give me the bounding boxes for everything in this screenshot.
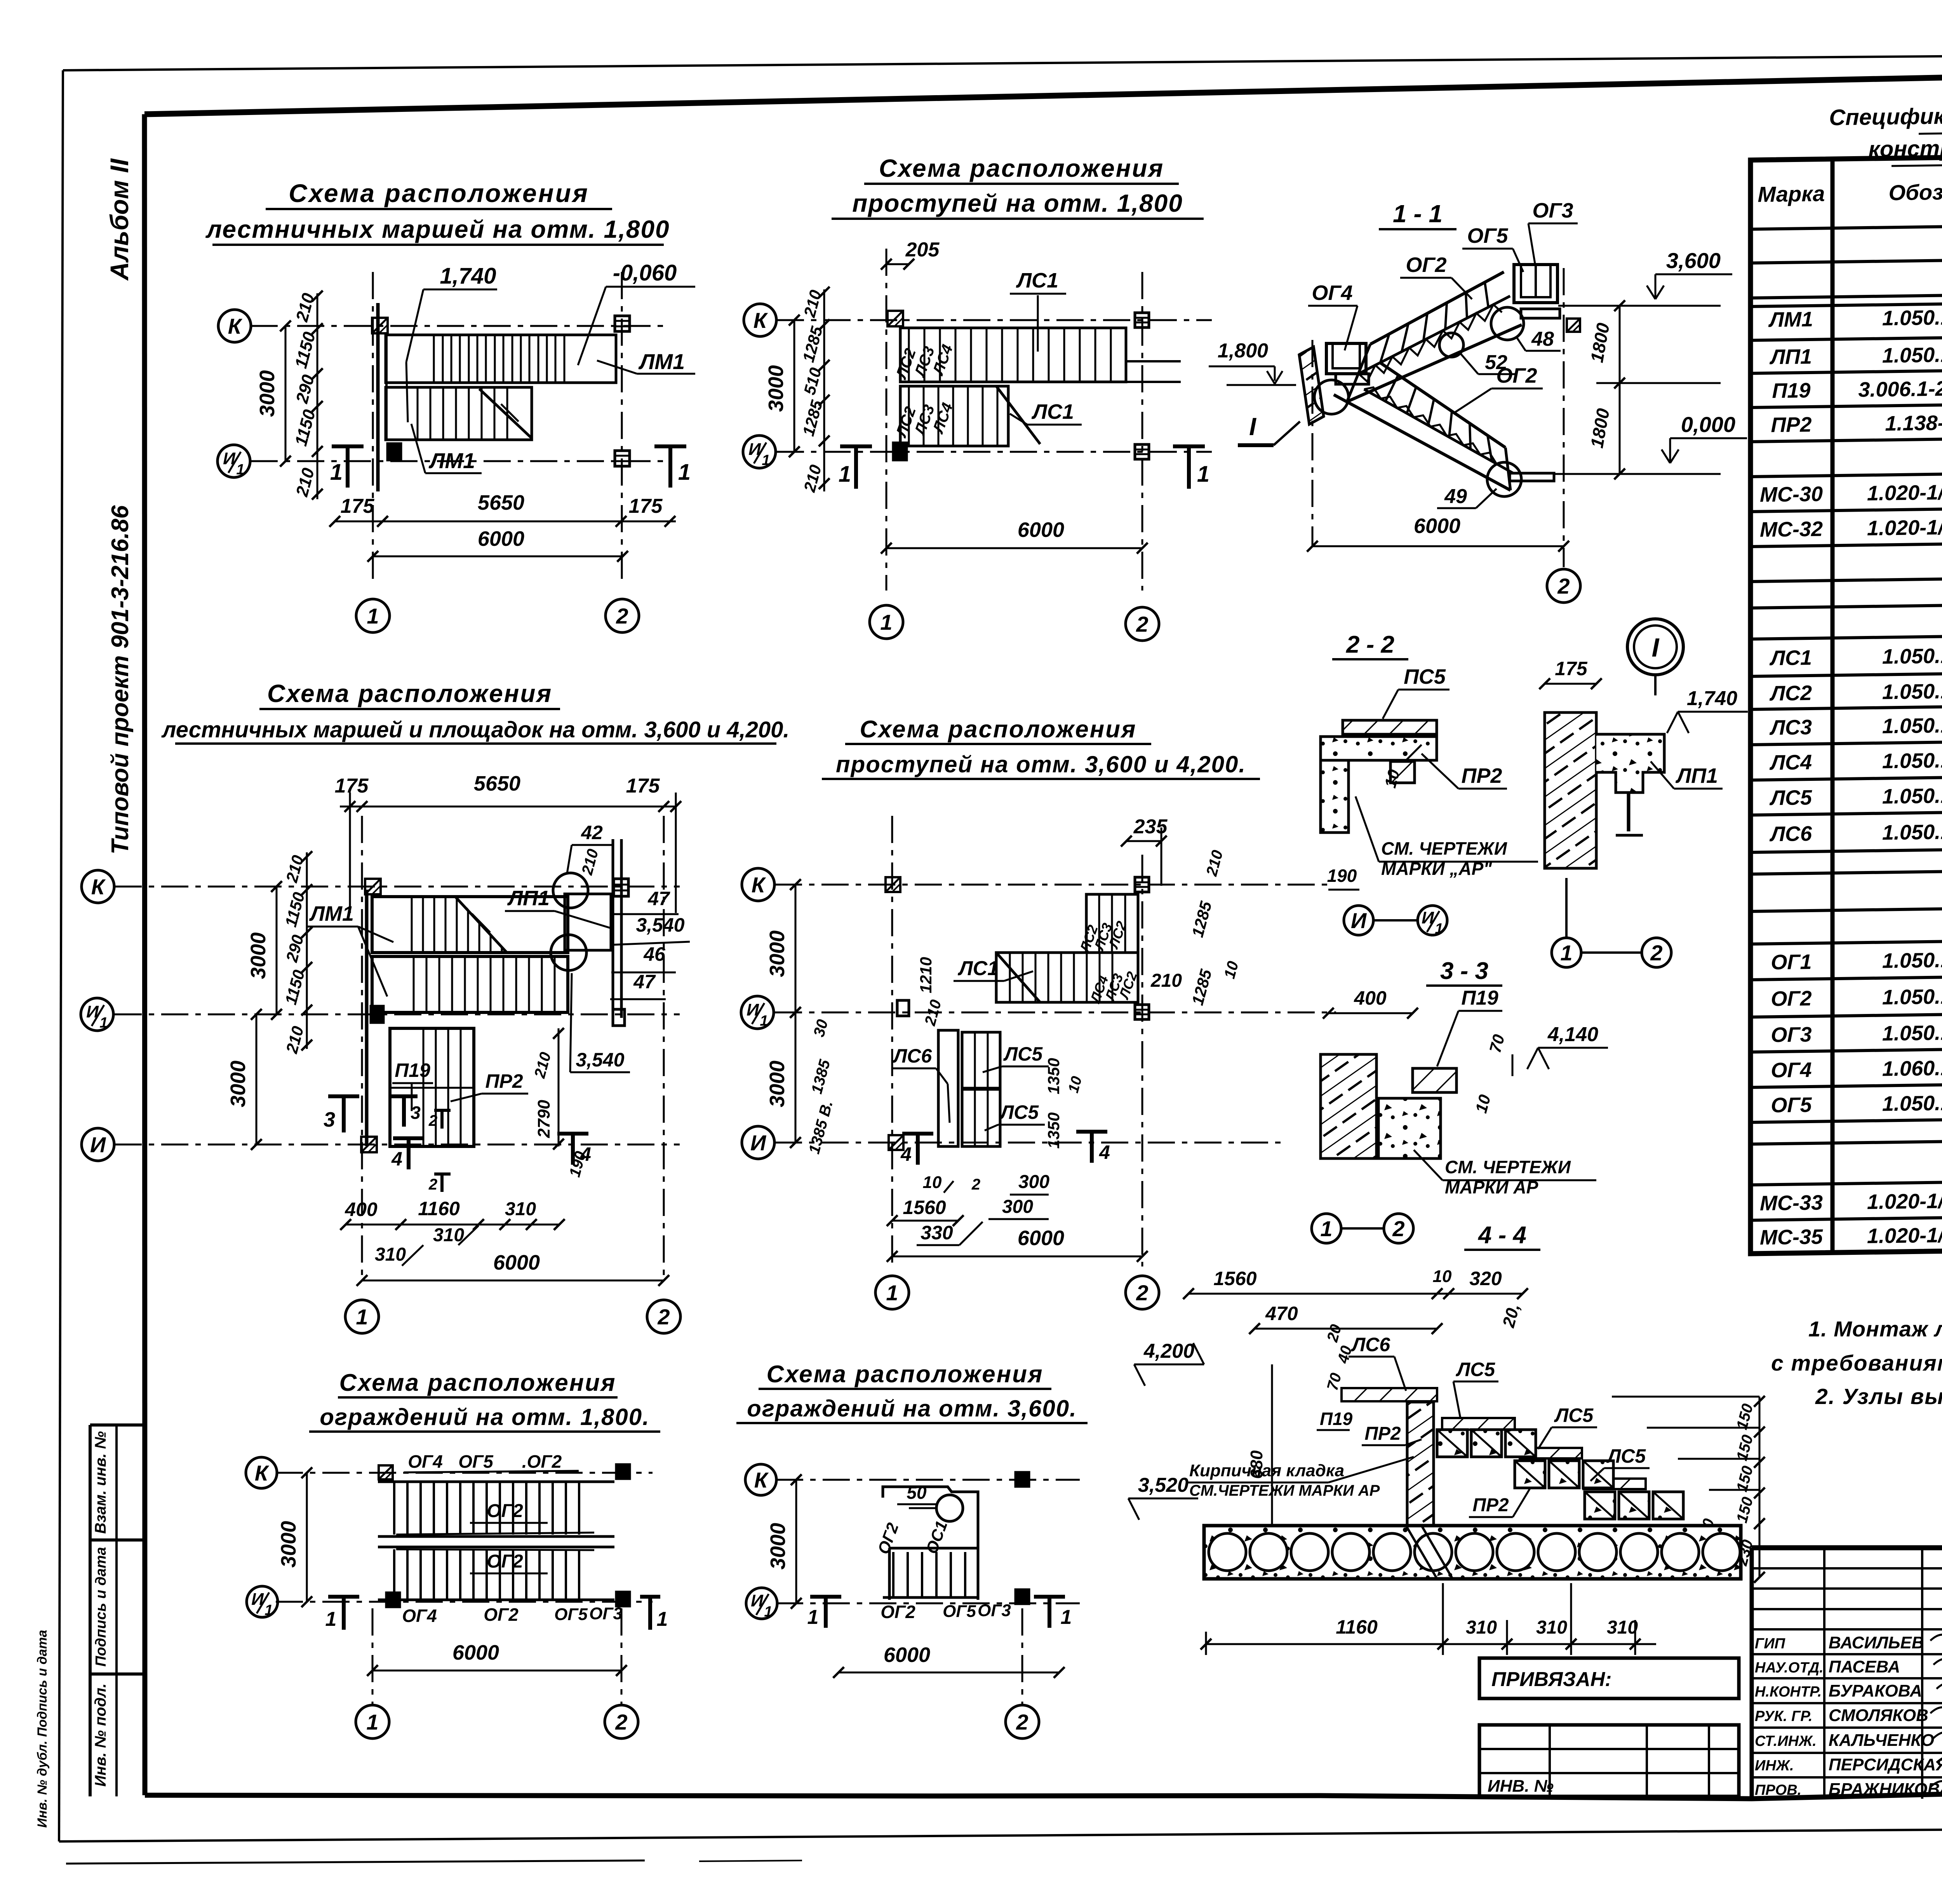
svg-text:с требованиями серии 1.020-: с требованиями серии 1.020-1/83 вып. 0-1… <box>1771 1351 1942 1376</box>
svg-text:Схема расположения: Схема расположения <box>289 179 589 207</box>
svg-text:2: 2 <box>428 1112 437 1129</box>
svg-text:И: И <box>750 1131 767 1155</box>
scheme C landing slab plan between circles <box>565 894 611 950</box>
section 1-1 lower flight guard band <box>1380 363 1505 448</box>
section 1-1 lower flight steps zigzag <box>1364 387 1506 464</box>
svg-text:ограждений на отм. 1,800.: ограждений на отм. 1,800. <box>320 1404 650 1430</box>
scheme C big circles landing supports <box>553 873 588 908</box>
title block signatures squiggles <box>1930 1634 1942 1642</box>
svg-text:МС-30: МС-30 <box>1760 483 1823 507</box>
svg-text:ПС5: ПС5 <box>1404 665 1446 688</box>
scheme F section marks 1 1 <box>810 1595 841 1599</box>
scheme F vertical dim 3000 <box>795 1480 797 1603</box>
scheme E axis circles 1 2 <box>372 1608 374 1705</box>
svg-text:175: 175 <box>341 495 375 517</box>
svg-text:1: 1 <box>356 1305 368 1329</box>
svg-text:1: 1 <box>325 1608 337 1631</box>
svg-text:проступей на отм. 1,800: проступей на отм. 1,800 <box>852 189 1183 217</box>
svg-text:1.138-10 вып.1: 1.138-10 вып.1 <box>1885 410 1942 435</box>
scheme D mid flight treads with diagonal <box>996 953 1138 1002</box>
svg-text:К: К <box>752 873 766 897</box>
svg-text:ЛС5: ЛС5 <box>1003 1043 1043 1065</box>
svg-text:ЛС4: ЛС4 <box>1769 751 1812 774</box>
detail 3-3 dim 400 <box>1328 1012 1413 1014</box>
svg-text:205: 205 <box>905 239 940 261</box>
svg-text:4,200: 4,200 <box>1143 1340 1194 1362</box>
left margin stamp boxes <box>90 1423 145 1427</box>
svg-text:235: 235 <box>1133 815 1168 838</box>
svg-text:10: 10 <box>923 1173 942 1192</box>
scheme A section mark 1 left <box>332 444 364 448</box>
svg-text:ЛС5: ЛС5 <box>1606 1445 1646 1467</box>
scheme D column I/1 small <box>897 1000 909 1016</box>
svg-text:Схема расположения: Схема расположения <box>766 1361 1043 1388</box>
scheme D axis 2 vertical <box>1142 855 1143 1266</box>
svg-text:4: 4 <box>1099 1141 1110 1163</box>
scheme B column K-2 <box>1135 313 1149 327</box>
svg-text:ОГ4: ОГ4 <box>408 1451 443 1472</box>
scheme C column I/1-1 black <box>371 1006 383 1023</box>
svg-text:1: 1 <box>1320 1216 1332 1241</box>
svg-text:190: 190 <box>1327 866 1357 886</box>
svg-text:ПР2: ПР2 <box>1472 1495 1509 1516</box>
svg-text:ЛС6: ЛС6 <box>1769 822 1812 846</box>
svg-text:1.020-1/83 вып.6-1: 1.020-1/83 вып.6-1 <box>1867 1188 1942 1214</box>
svg-text:1.050.1-2 вып.2: 1.050.1-2 вып.2 <box>1882 947 1942 972</box>
svg-text:1: 1 <box>1435 921 1443 937</box>
svg-text:П19: П19 <box>1461 987 1498 1009</box>
svg-text:1.050.1-2 вып.2: 1.050.1-2 вып.2 <box>1882 1090 1942 1115</box>
svg-text:1.050.1-2 вып.1: 1.050.1-2 вып.1 <box>1882 747 1942 773</box>
scheme E section marks 1 1 <box>328 1595 359 1599</box>
scheme B upper tread row <box>900 328 1126 382</box>
scheme C dim 6000 <box>362 1280 664 1282</box>
svg-text:ОГ2: ОГ2 <box>881 1602 915 1622</box>
svg-text:ОГ2: ОГ2 <box>1406 253 1446 277</box>
svg-text:210: 210 <box>1150 970 1182 991</box>
detail 3-3 slab piece hatched <box>1413 1068 1456 1092</box>
svg-text:3000: 3000 <box>256 370 279 417</box>
section 1-1 axis 2 dash-dot vertical <box>1563 268 1565 567</box>
svg-text:ОГ4: ОГ4 <box>1771 1058 1811 1082</box>
svg-text:1560: 1560 <box>903 1197 946 1218</box>
svg-text:1350: 1350 <box>1044 1058 1063 1094</box>
svg-text:47: 47 <box>647 888 670 909</box>
svg-text:К: К <box>753 308 768 333</box>
section 1-1 upper flight steps zigzag <box>1359 305 1502 381</box>
scheme C axis I/1 line and circle <box>115 1014 680 1016</box>
svg-text:175: 175 <box>629 495 663 517</box>
section 1-1 hatched column top right <box>1567 319 1580 332</box>
section 1-1 left axis dash-dot vertical <box>1312 340 1314 546</box>
section 4-4 bottom dims 1160 310 310 310 <box>1206 1643 1656 1645</box>
svg-text:1 - 1: 1 - 1 <box>1393 200 1443 228</box>
svg-text:Н.КОНТР.: Н.КОНТР. <box>1755 1684 1822 1700</box>
scheme C axis I line and circle <box>115 1144 680 1146</box>
svg-text:4: 4 <box>900 1143 912 1165</box>
section 4-4 step blocks row 2 <box>1515 1461 1545 1488</box>
scheme C tiny section 2 marks <box>434 1109 451 1112</box>
svg-text:3: 3 <box>411 1103 421 1123</box>
svg-text:ОГ3: ОГ3 <box>1532 199 1573 222</box>
svg-text:лестничных маршей и площадок: лестничных маршей и площадок на отм. 3,6… <box>161 717 789 742</box>
scheme A column at K-2 <box>615 316 630 331</box>
svg-text:50: 50 <box>907 1482 927 1503</box>
svg-text:СМОЛЯКОВ: СМОЛЯКОВ <box>1829 1706 1928 1725</box>
svg-text:6000: 6000 <box>1018 1226 1064 1250</box>
svg-text:310: 310 <box>1536 1617 1567 1638</box>
svg-text:Взам. инв. №: Взам. инв. № <box>92 1431 109 1534</box>
scheme D column K-2 <box>1135 877 1149 892</box>
scheme A vertical dim 3000 <box>285 326 287 461</box>
svg-text:проступей на отм. 3,600 и 4,: проступей на отм. 3,600 и 4,200. <box>836 751 1246 777</box>
svg-text:1160: 1160 <box>418 1198 460 1219</box>
scheme E column marks <box>379 1465 393 1479</box>
scheme E lower guard rail row <box>378 1546 614 1549</box>
svg-text:СМ.ЧЕРТЕЖИ МАРКИ АР: СМ.ЧЕРТЕЖИ МАРКИ АР <box>1189 1482 1380 1499</box>
section 4-4 hollow core slab <box>1204 1526 1741 1579</box>
scheme C axis circles 1 2 <box>345 1300 379 1333</box>
scheme D axis I line and circle <box>775 1142 1282 1144</box>
svg-text:К: К <box>91 874 106 899</box>
scheme B column I/1-2 <box>1135 444 1149 459</box>
svg-text:ЛП1: ЛП1 <box>507 887 550 910</box>
node I axis circles 1 2 <box>1552 938 1581 967</box>
scheme C vertical dims 3000 x2 <box>276 887 278 1014</box>
scheme C axis 2 vertical <box>663 816 665 1282</box>
svg-text:БУРАКОВА: БУРАКОВА <box>1829 1681 1922 1700</box>
svg-text:1. Монтаж лестничных маршей: 1. Монтаж лестничных маршей производить … <box>1808 1317 1942 1341</box>
svg-text:НАУ.ОТД.: НАУ.ОТД. <box>1755 1660 1824 1676</box>
scheme A column at K-1 hatched <box>372 318 388 333</box>
svg-text:2: 2 <box>657 1305 670 1329</box>
svg-text:47: 47 <box>633 971 656 993</box>
scheme A axis circle 1 <box>356 599 390 632</box>
svg-text:П19: П19 <box>395 1059 430 1081</box>
svg-text:1.020-1/83 вып.7-1: 1.020-1/83 вып.7-1 <box>1867 479 1942 505</box>
scan page edge line bottom <box>66 1860 645 1864</box>
svg-text:ГИП: ГИП <box>1755 1636 1785 1652</box>
svg-text:1.060.1-2 вып.2: 1.060.1-2 вып.2 <box>1882 1055 1942 1080</box>
svg-text:1560: 1560 <box>1213 1268 1256 1289</box>
detail 2-2 wall below <box>1321 760 1349 833</box>
svg-text:Подпись и дата: Подпись и дата <box>93 1547 109 1667</box>
scheme B column K-1 hatched <box>887 311 903 326</box>
svg-text:49: 49 <box>1444 485 1467 508</box>
svg-text:РУК. ГР.: РУК. ГР. <box>1755 1708 1813 1725</box>
svg-text:ЛС1: ЛС1 <box>1031 400 1074 423</box>
scheme B lower tread row with diagonal <box>900 386 1008 446</box>
scheme F dim 6000 <box>839 1672 1059 1674</box>
scheme C axis K line and circle <box>115 886 680 888</box>
svg-text:3000: 3000 <box>226 1061 250 1107</box>
svg-text:310: 310 <box>505 1199 536 1219</box>
privyazan box <box>1479 1658 1739 1698</box>
svg-text:2: 2 <box>971 1176 980 1193</box>
svg-text:1160: 1160 <box>1336 1616 1378 1638</box>
svg-text:К: К <box>228 314 243 338</box>
section 1-1 vertical dims 1800 1800 <box>1619 306 1621 474</box>
svg-text:ПАСЕВА: ПАСЕВА <box>1829 1657 1900 1676</box>
scheme C axis 1 vertical <box>361 816 363 1282</box>
svg-text:МС-33: МС-33 <box>1760 1191 1823 1215</box>
svg-text:ПРОВ.: ПРОВ. <box>1755 1782 1801 1798</box>
svg-text:1: 1 <box>880 610 892 634</box>
svg-text:1.020-1/83 вып.6-1: 1.020-1/83 вып.6-1 <box>1867 1222 1942 1248</box>
scheme C column box I/1-2 <box>613 1009 625 1026</box>
svg-text:ОГ3: ОГ3 <box>978 1601 1011 1620</box>
detail 2-2 axis circles I I/1 <box>1344 906 1373 935</box>
svg-text:310: 310 <box>433 1225 464 1246</box>
scheme F axis I/1 line circle <box>776 1603 1080 1604</box>
svg-text:СМ. ЧЕРТЕЖИ: СМ. ЧЕРТЕЖИ <box>1445 1157 1571 1177</box>
detail 3-3 axis circles 1 2 <box>1312 1214 1341 1243</box>
svg-text:1.050.1-2 вып.1: 1.050.1-2 вып.1 <box>1882 678 1942 704</box>
main drawing frame <box>144 65 1942 114</box>
section 4-4 top dims 1560 10 320 470 20 <box>1189 1293 1523 1295</box>
scheme B section mark 1 left <box>840 444 872 448</box>
section 1-1 dim 6000 <box>1312 545 1564 547</box>
svg-text:ЛП1: ЛП1 <box>1675 764 1718 787</box>
scheme D axis 1 vertical <box>891 816 893 1266</box>
svg-text:ЛМ1: ЛМ1 <box>1768 308 1813 332</box>
svg-text:К: К <box>754 1468 769 1492</box>
svg-text:ограждений на отм. 3,600.: ограждений на отм. 3,600. <box>747 1395 1077 1421</box>
svg-text:1.050.1-2 вып.1: 1.050.1-2 вып.1 <box>1882 643 1942 668</box>
svg-text:ИНВ. №: ИНВ. № <box>1488 1777 1554 1796</box>
svg-text:КАЛЬЧЕНКО: КАЛЬЧЕНКО <box>1829 1731 1934 1750</box>
svg-text:1: 1 <box>330 460 343 485</box>
scheme D column K-1 hatched <box>886 877 900 892</box>
section 1-1 top landing guard OG3 panel <box>1514 265 1557 303</box>
svg-text:3000: 3000 <box>766 1523 790 1570</box>
svg-text:БРАЖНИКОВА: БРАЖНИКОВА <box>1829 1780 1942 1799</box>
svg-text:6000: 6000 <box>1414 514 1460 538</box>
svg-text:46: 46 <box>643 943 666 965</box>
scheme C column box K-2 <box>614 879 628 896</box>
svg-text:1.050.1-2 вып.1: 1.050.1-2 вып.1 <box>1882 342 1942 367</box>
svg-text:42: 42 <box>581 822 603 843</box>
svg-text:ПР2: ПР2 <box>1462 764 1502 787</box>
scheme B dim 205 top <box>886 263 909 265</box>
scheme C bottom dims 400 1160 310 310 310 <box>346 1224 559 1226</box>
node I dim 175 top <box>1545 683 1596 685</box>
scheme B landing step edge right <box>1126 360 1181 362</box>
svg-text:3000: 3000 <box>247 932 270 979</box>
section 1-1 top landing bar <box>1521 309 1560 318</box>
svg-text:3000: 3000 <box>766 1061 789 1107</box>
svg-text:2: 2 <box>616 604 628 628</box>
svg-text:ЛС6: ЛС6 <box>893 1045 932 1067</box>
svg-text:ЛС5: ЛС5 <box>1456 1359 1495 1380</box>
scheme B section mark 1 right <box>1173 444 1205 448</box>
scheme C upper flight with diagonal <box>372 897 568 953</box>
section 4-4 brick wall pier hatched <box>1407 1402 1434 1526</box>
svg-text:ИНЖ.: ИНЖ. <box>1755 1758 1794 1774</box>
scheme A axis K circle <box>218 310 251 342</box>
scheme D upper treads block near axis2 <box>1086 894 1138 953</box>
scheme B axis I/1 line <box>777 451 1212 453</box>
svg-text:ОГ2: ОГ2 <box>1771 987 1811 1010</box>
svg-text:ПРИВЯЗАН:: ПРИВЯЗАН: <box>1491 1668 1612 1691</box>
svg-text:ОГ2: ОГ2 <box>487 1551 523 1572</box>
svg-text:1.050.1-2 вып.2: 1.050.1-2 вып.2 <box>1882 984 1942 1009</box>
node I landing slab with nib <box>1596 734 1664 793</box>
svg-text:МС-35: МС-35 <box>1760 1225 1823 1249</box>
scheme F column marks <box>1016 1472 1029 1486</box>
scheme A axis 2 vertical <box>621 272 623 583</box>
scheme A axis circle 2 <box>606 599 639 632</box>
svg-text:Обозначение: Обозначение <box>1889 179 1942 205</box>
detail 2-2 landing slab concrete <box>1321 737 1437 760</box>
node I steel I-beam under slab <box>1622 791 1637 794</box>
scheme F axis K line circle <box>776 1479 1080 1481</box>
svg-text:П19: П19 <box>1772 379 1811 402</box>
scheme D column I/1-2 <box>1135 1005 1149 1019</box>
scheme F small circle OG1 <box>936 1495 963 1521</box>
svg-text:2: 2 <box>1136 612 1148 636</box>
scheme B axis I/1 circle <box>743 435 776 468</box>
scheme C top dims 175 5650 175 <box>340 806 676 808</box>
scheme B dim 6000 <box>886 547 1142 549</box>
svg-text:320: 320 <box>1469 1268 1502 1289</box>
scheme C column K-1 hatched <box>365 879 381 894</box>
svg-text:ОГ5: ОГ5 <box>943 1602 976 1621</box>
svg-text:3 - 3: 3 - 3 <box>1440 958 1488 984</box>
svg-text:2: 2 <box>1392 1216 1404 1241</box>
scheme B axis circle 1 <box>870 605 903 639</box>
svg-text:К: К <box>255 1461 270 1485</box>
svg-text:ЛС2: ЛС2 <box>1769 681 1812 705</box>
scheme E axis I/1 line circle <box>276 1601 653 1603</box>
svg-text:3,600: 3,600 <box>1666 248 1721 273</box>
svg-text:ЛС1: ЛС1 <box>957 957 999 980</box>
svg-text:1,740: 1,740 <box>1687 687 1737 710</box>
scheme C section marks 3 and 4 <box>328 1094 359 1098</box>
scheme A wall line at axis 1 <box>376 303 380 491</box>
section 1-1 bottom landing bar <box>1510 473 1554 481</box>
svg-text:4: 4 <box>580 1143 591 1165</box>
svg-text:1: 1 <box>236 462 244 478</box>
svg-text:330: 330 <box>921 1222 953 1244</box>
scheme C wall at axis1 <box>365 890 369 1146</box>
svg-text:ЛП1: ЛП1 <box>1769 345 1812 369</box>
svg-text:6000: 6000 <box>1018 518 1064 542</box>
svg-text:4: 4 <box>391 1148 402 1170</box>
section 4-4 step blocks row 1 <box>1437 1430 1467 1457</box>
svg-text:1.050.1-2 вып.1: 1.050.1-2 вып.1 <box>1882 305 1942 330</box>
svg-text:ЛС5: ЛС5 <box>1554 1404 1594 1426</box>
scheme D dim 235 top right <box>1126 840 1161 842</box>
svg-text:3: 3 <box>324 1108 335 1131</box>
scheme B small dims column <box>823 289 825 491</box>
scheme C column I-1 hatched <box>361 1137 377 1152</box>
title block outer <box>1752 1545 1942 1550</box>
scheme A column at I/1-1 <box>388 444 401 460</box>
svg-text:-0,060: -0,060 <box>613 260 677 286</box>
svg-text:ОГ1: ОГ1 <box>1771 950 1811 974</box>
svg-text:400: 400 <box>345 1198 378 1220</box>
svg-text:4 - 4: 4 - 4 <box>1477 1222 1526 1249</box>
svg-text:0,000: 0,000 <box>1681 412 1735 437</box>
svg-text:2 - 2: 2 - 2 <box>1346 631 1394 658</box>
section 4-4 tread strips LS5 LS6 stepped <box>1342 1388 1437 1401</box>
svg-text:ЛМ1: ЛМ1 <box>309 902 354 925</box>
scheme E upper guard rail row <box>378 1481 614 1483</box>
svg-text:ОГ2: ОГ2 <box>484 1604 519 1625</box>
svg-text:4,140: 4,140 <box>1547 1023 1598 1046</box>
svg-text:5650: 5650 <box>474 772 520 795</box>
svg-text:ОГ4: ОГ4 <box>1312 281 1352 305</box>
specification table column lines <box>1831 159 1835 1252</box>
svg-text:1: 1 <box>764 1604 772 1620</box>
scheme A dim 175 5650 175 <box>335 521 676 523</box>
scheme E vertical dim 3000 <box>306 1473 308 1602</box>
svg-text:2: 2 <box>428 1176 437 1193</box>
scheme D axis circles 1 2 <box>875 1276 909 1309</box>
svg-text:10: 10 <box>1433 1267 1452 1286</box>
scheme A axis K line <box>251 325 670 327</box>
svg-text:2: 2 <box>1650 941 1662 965</box>
svg-text:ОГ3: ОГ3 <box>1771 1023 1811 1047</box>
scheme A upper stair flight LM1 <box>386 335 616 383</box>
svg-text:Инв. № подл.: Инв. № подл. <box>92 1683 109 1787</box>
svg-text:6000: 6000 <box>884 1643 930 1667</box>
svg-text:I: I <box>1249 413 1256 441</box>
detail 3-3 concrete block <box>1378 1098 1441 1158</box>
svg-text:.ОГ2: .ОГ2 <box>522 1451 562 1472</box>
svg-text:1: 1 <box>367 604 379 628</box>
scheme C small dims column <box>306 852 308 1049</box>
svg-text:ВАСИЛЬЕВ: ВАСИЛЬЕВ <box>1829 1633 1924 1652</box>
svg-text:1,800: 1,800 <box>1218 340 1268 362</box>
svg-text:ЛС3: ЛС3 <box>1769 716 1812 739</box>
svg-text:И: И <box>90 1132 106 1157</box>
svg-text:310: 310 <box>375 1244 406 1265</box>
scheme A lower stair flight LM1 with diagonal cut <box>386 387 532 440</box>
section 1-1 left landing bar <box>1336 374 1369 384</box>
section 1-1 left lower joint circle <box>1314 380 1349 414</box>
scheme B column I/1-1 <box>893 443 907 460</box>
svg-text:ЛМ1: ЛМ1 <box>638 349 685 374</box>
svg-text:1.050.1-2 вып.1: 1.050.1-2 вып.1 <box>1882 712 1942 738</box>
svg-text:1: 1 <box>99 1015 108 1031</box>
svg-text:ПЕРСИДСКАЯ: ПЕРСИДСКАЯ <box>1829 1755 1942 1774</box>
svg-text:Альбом II: Альбом II <box>105 158 134 281</box>
scheme B axis circle 2 <box>1126 607 1159 641</box>
svg-text:1: 1 <box>366 1710 378 1734</box>
scheme E dim 6000 <box>372 1670 621 1672</box>
svg-text:1: 1 <box>886 1280 898 1305</box>
detail 3-3 wall hatched <box>1321 1054 1376 1158</box>
scheme D column I-1 hatched <box>889 1135 903 1150</box>
svg-text:1: 1 <box>1560 941 1572 965</box>
scheme D vertical dims 3000 x2 <box>795 885 797 1012</box>
svg-text:1210: 1210 <box>917 957 935 993</box>
svg-text:ОГ5: ОГ5 <box>458 1451 494 1472</box>
scheme B axis 2 vertical <box>1142 272 1143 591</box>
svg-text:3,520: 3,520 <box>1138 1474 1189 1496</box>
svg-text:3.006.1-2/82 вып.1-2: 3.006.1-2/82 вып.1-2 <box>1858 376 1942 402</box>
svg-text:48: 48 <box>1531 328 1554 350</box>
svg-text:ЛМ1: ЛМ1 <box>428 448 475 473</box>
svg-text:ЛС1: ЛС1 <box>1769 646 1812 670</box>
detail 2-2 tread slab PS5 hatched <box>1343 720 1437 734</box>
outer thin sheet frame <box>63 52 1942 70</box>
svg-text:310: 310 <box>1607 1617 1638 1638</box>
svg-text:1: 1 <box>657 1608 668 1631</box>
svg-text:П19: П19 <box>1320 1409 1353 1429</box>
